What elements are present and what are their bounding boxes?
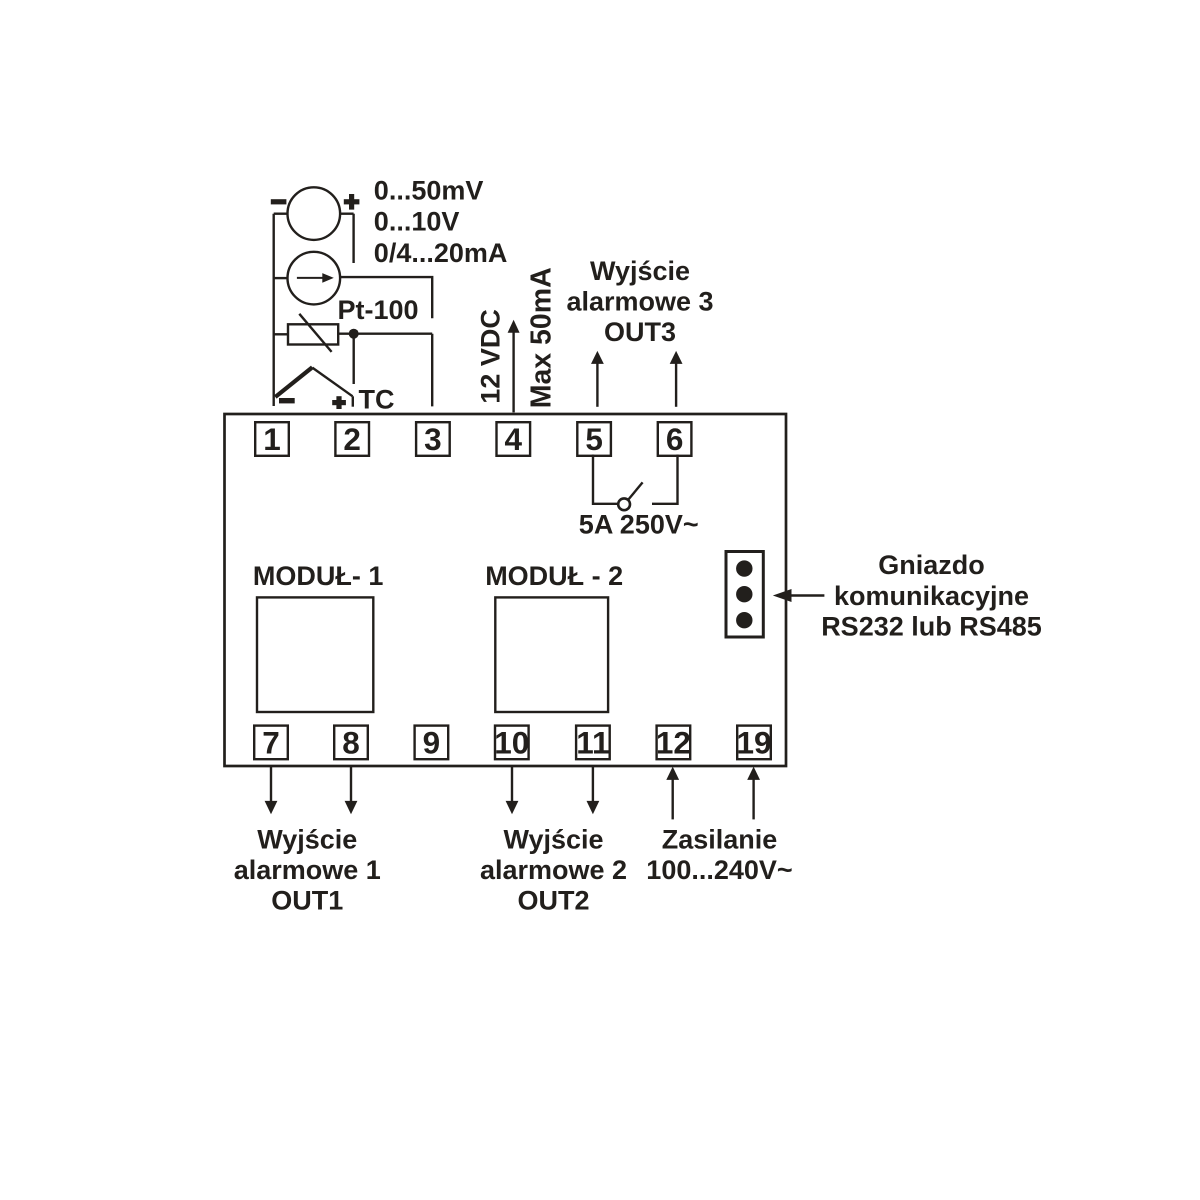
svg-text:OUT1: OUT1: [271, 886, 343, 916]
svg-text:Zasilanie: Zasilanie: [662, 825, 778, 855]
main device box: [225, 414, 787, 766]
svg-text:0/4...20mA: 0/4...20mA: [374, 238, 508, 268]
voltage source V1: [288, 187, 341, 240]
module 2 box: [495, 597, 608, 712]
terminal 6: [658, 422, 692, 456]
wire: relay left from terminal 5: [593, 455, 618, 504]
arrowhead OUT3 left up: [591, 351, 604, 364]
thermocouple TC right leg: [312, 368, 352, 397]
svg-text:Pt-100: Pt-100: [338, 295, 419, 325]
down arrow line at terminal 11: [592, 766, 594, 802]
terminal 19: [737, 726, 771, 760]
svg-text:0...10V: 0...10V: [374, 207, 460, 237]
arrowhead down at terminal 8: [345, 801, 358, 814]
relay contact lever: [628, 482, 642, 499]
connector pin dot 3: [736, 612, 752, 628]
arrowhead up at terminal 19: [747, 767, 760, 780]
svg-text:7: 7: [262, 724, 280, 760]
voltage source plus sign: [344, 199, 360, 204]
up arrow line at terminal 12: [672, 779, 674, 819]
svg-text:12 VDC: 12 VDC: [476, 309, 506, 404]
svg-text:11: 11: [576, 724, 609, 760]
svg-text:0...50mV: 0...50mV: [374, 175, 484, 205]
wire: stub to voltage source minus: [274, 212, 288, 214]
connector pin dot 1: [736, 560, 752, 576]
wire: 12VDC arrow line at terminal 4: [512, 332, 514, 413]
down arrow line at terminal 10: [511, 766, 513, 802]
down arrow line at terminal 8: [350, 766, 352, 802]
terminal 12: [657, 726, 691, 760]
relay contact pivot circle: [618, 498, 630, 510]
wire: stub to current source left: [274, 277, 288, 279]
svg-text:8: 8: [342, 724, 360, 760]
svg-text:12: 12: [656, 724, 691, 760]
current source arrow: [297, 277, 324, 279]
svg-text:alarmowe 3: alarmowe 3: [566, 286, 713, 316]
svg-text:6: 6: [666, 421, 684, 457]
wire: stub to resistor left: [274, 333, 288, 335]
communication arrow line: [789, 594, 824, 596]
wire: OUT3 arrow line at terminal 6: [675, 363, 677, 407]
svg-text:RS232 lub RS485: RS232 lub RS485: [821, 611, 1042, 641]
RS232/RS485 connector body: [726, 552, 763, 638]
resistor Pt-100 diagonal strike: [299, 314, 331, 352]
TC minus sign: [279, 398, 295, 403]
connector pin dot 2: [736, 586, 752, 602]
svg-text:19: 19: [736, 724, 771, 760]
svg-text:OUT2: OUT2: [517, 886, 589, 916]
wire: left bus: [273, 214, 275, 406]
wire: plus drop (dead end): [352, 214, 354, 263]
wire: relay right to terminal 6: [652, 455, 678, 504]
wire: junction dot to right bus: [338, 333, 432, 335]
svg-text:2: 2: [343, 421, 361, 457]
svg-text:alarmowe 1: alarmowe 1: [234, 855, 381, 885]
svg-text:10: 10: [494, 724, 529, 760]
svg-text:Wyjście: Wyjście: [503, 825, 603, 855]
svg-text:100...240V~: 100...240V~: [646, 855, 792, 885]
svg-text:4: 4: [505, 421, 523, 457]
svg-text:Gniazdo: Gniazdo: [878, 550, 985, 580]
arrowhead up at terminal 12: [666, 767, 679, 780]
svg-text:komunikacyjne: komunikacyjne: [834, 581, 1029, 611]
terminal 3: [416, 422, 450, 456]
down arrow line at terminal 7: [270, 766, 272, 802]
svg-text:Max 50mA: Max 50mA: [526, 267, 558, 408]
svg-text:MODUŁ- 1: MODUŁ- 1: [253, 561, 384, 591]
svg-text:3: 3: [424, 421, 442, 457]
junction dot node: [349, 329, 359, 339]
terminal 4: [497, 422, 531, 456]
thermocouple TC left leg (thick): [275, 367, 312, 397]
wire: OUT3 arrow line at terminal 5: [596, 363, 598, 407]
up arrow line at terminal 19: [752, 779, 754, 819]
svg-text:1: 1: [263, 421, 281, 457]
current source I1: [288, 252, 341, 305]
terminal 8: [334, 726, 368, 760]
wire: junction dot down to TC plus: [353, 338, 355, 384]
terminal 5: [577, 422, 611, 456]
arrowhead down at terminal 7: [265, 801, 278, 814]
module 1 box: [257, 597, 373, 712]
svg-text:MODUŁ - 2: MODUŁ - 2: [485, 561, 623, 591]
wire: stub from voltage source plus: [340, 212, 354, 214]
resistor Pt-100 body: [288, 324, 338, 344]
svg-text:TC: TC: [359, 385, 395, 415]
svg-text:5: 5: [585, 421, 603, 457]
TC plus sign: [332, 400, 346, 405]
svg-text:Wyjście: Wyjście: [590, 256, 690, 286]
svg-text:alarmowe 2: alarmowe 2: [480, 855, 627, 885]
arrowhead OUT3 right up: [670, 351, 683, 364]
wire: TC right end down: [352, 396, 354, 406]
svg-text:5A 250V~: 5A 250V~: [579, 510, 699, 540]
svg-text:9: 9: [423, 724, 441, 760]
terminal 10: [495, 726, 529, 760]
arrowhead 12VDC up: [508, 320, 520, 333]
terminal 1: [255, 422, 289, 456]
arrowhead down at terminal 11: [587, 801, 600, 814]
terminal 9: [415, 726, 449, 760]
voltage source minus sign: [271, 199, 287, 204]
wire: right bus to terminal 3: [431, 334, 433, 407]
wire: current source output to right bus: [340, 277, 432, 318]
arrowhead down at terminal 10: [506, 801, 519, 814]
terminal 11: [576, 726, 610, 760]
communication arrowhead left: [773, 589, 792, 602]
svg-text:Wyjście: Wyjście: [257, 825, 357, 855]
svg-text:OUT3: OUT3: [604, 317, 676, 347]
terminal 2: [335, 422, 369, 456]
terminal 7: [254, 726, 288, 760]
